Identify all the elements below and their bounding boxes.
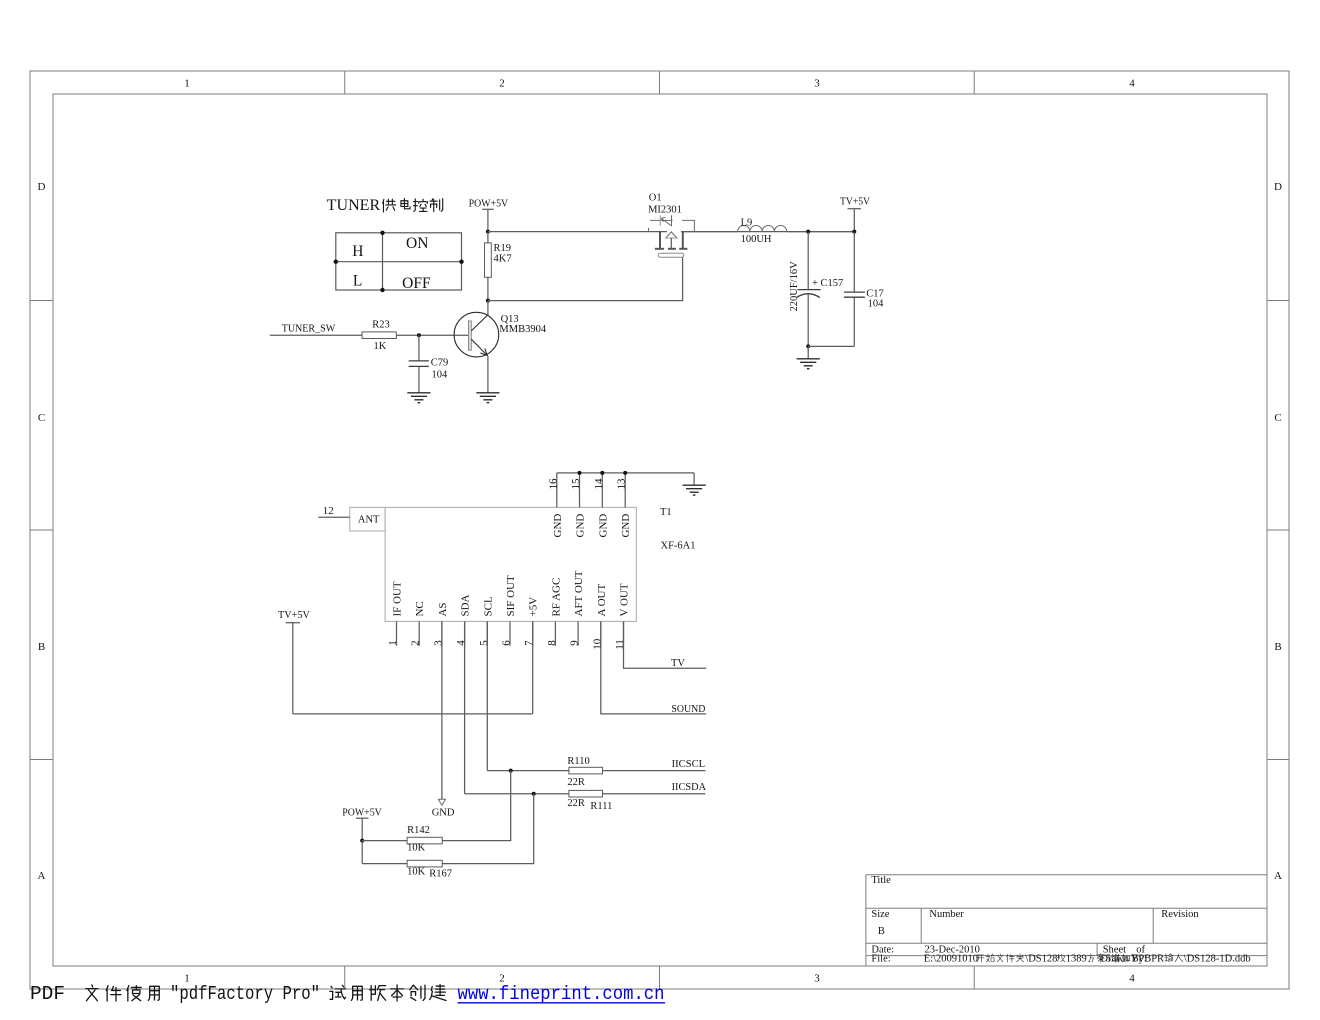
svg-text:4: 4 [1129, 973, 1135, 985]
svg-text:2: 2 [499, 78, 505, 90]
svg-text:13: 13 [616, 478, 628, 490]
wire GND bus above T1 [557, 472, 694, 474]
svg-text:Title: Title [871, 875, 891, 886]
pin 9 AFT OUT [577, 621, 579, 645]
svg-text:1K: 1K [374, 341, 387, 352]
svg-text:T1: T1 [660, 507, 672, 518]
node C157 bottom junction [806, 344, 810, 348]
ground below Q13 [476, 393, 499, 403]
pin 14 GND [601, 473, 603, 508]
svg-text:C: C [1274, 412, 1281, 424]
svg-text:D: D [38, 181, 46, 193]
svg-text:9: 9 [569, 640, 581, 646]
svg-text:TV+5V: TV+5V [840, 196, 870, 207]
svg-text:MI2301: MI2301 [648, 205, 682, 216]
svg-text:4: 4 [455, 640, 467, 646]
svg-text:+ C157: + C157 [812, 278, 843, 289]
wire C157 to C17 bottom [808, 345, 854, 347]
svg-text:E:\20091010: E:\20091010 [924, 954, 978, 965]
svg-text:IICSDA: IICSDA [672, 782, 707, 793]
pin 13 GND [624, 473, 626, 508]
pin 8 RF AGC [554, 621, 556, 645]
node pin14 junction [600, 471, 604, 475]
wire R110 to IICSCL [603, 770, 706, 772]
wire SCL row [487, 770, 569, 772]
svg-text:B: B [878, 926, 885, 937]
node TV+5V junction [852, 230, 856, 234]
node SDA R167 junction [532, 792, 536, 796]
svg-text:RF AGC: RF AGC [550, 578, 562, 617]
wire SDA row [465, 793, 569, 795]
svg-text:GND: GND [552, 514, 564, 538]
svg-text:A: A [38, 870, 46, 882]
svg-text:220UF/16V: 220UF/16V [789, 261, 800, 312]
svg-text:3: 3 [432, 640, 444, 646]
svg-text:+5V: +5V [528, 597, 540, 617]
wire pin7 +5V down [532, 621, 534, 714]
svg-text:5: 5 [478, 640, 490, 646]
capacitor C79 104 [418, 335, 420, 361]
wire rail POW+5V to O1 source [488, 231, 667, 233]
wire R23 to Q13 base [396, 334, 468, 336]
svg-text:10: 10 [591, 638, 603, 650]
svg-text:4K7: 4K7 [494, 254, 512, 265]
node C79 junction [417, 333, 421, 337]
svg-text:R19: R19 [494, 243, 512, 254]
svg-text:A: A [1274, 870, 1282, 882]
ground below C157 [807, 346, 809, 358]
svg-text:SDA: SDA [460, 594, 472, 616]
pin 7 +5V [532, 621, 534, 645]
svg-text:3: 3 [814, 78, 820, 90]
svg-text:14: 14 [593, 478, 605, 490]
svg-text:SOUND: SOUND [671, 704, 705, 715]
svg-text:V OUT: V OUT [619, 583, 631, 616]
transistor O1 MI2301 P-MOSFET [648, 193, 694, 258]
wire pin11 V OUT to TV [624, 621, 707, 668]
node pin13 junction [623, 471, 627, 475]
resistor R111 22R [569, 790, 603, 797]
pin 3 AS [441, 621, 443, 645]
pin 6 SIF OUT [509, 621, 511, 645]
svg-text:File:: File: [871, 954, 890, 965]
wire TUNER_SW input [270, 334, 362, 336]
pin 10 A OUT [600, 621, 602, 645]
resistor R142 10K [362, 840, 407, 842]
svg-text:TUNER_SW: TUNER_SW [282, 324, 336, 335]
node R19 bottom junction [486, 299, 490, 303]
node POW+5V rail junction [486, 230, 490, 234]
svg-text:11: 11 [614, 639, 626, 650]
wire TV+5V to pin7 [293, 713, 533, 715]
svg-text:1: 1 [387, 640, 399, 646]
svg-text:MMB3904: MMB3904 [499, 324, 546, 335]
node POW+5V bottom junction [360, 839, 364, 843]
pin 2 NC [418, 621, 420, 645]
svg-text:3: 3 [814, 973, 820, 985]
wire rail O1 drain to TV+5V [681, 231, 854, 233]
svg-text:100UH: 100UH [741, 234, 772, 245]
ground for T1 GND pins [693, 473, 695, 485]
svg-text:16: 16 [547, 478, 559, 490]
svg-text:O1: O1 [649, 193, 662, 204]
power port GND arrow [438, 799, 445, 805]
pin 12 ANT [318, 516, 350, 518]
tuner module T1 XF-6A1 [385, 507, 636, 621]
wire R142 to SCL [442, 771, 511, 841]
svg-text:22R: 22R [567, 777, 585, 788]
svg-text:Revision: Revision [1161, 909, 1199, 920]
svg-text:R111: R111 [590, 801, 612, 812]
svg-text:IICSCL: IICSCL [672, 759, 706, 770]
svg-text:GND: GND [575, 514, 587, 538]
svg-text:7: 7 [523, 640, 535, 646]
svg-text:TUNER: TUNER [327, 197, 381, 214]
svg-text:6: 6 [501, 640, 513, 646]
svg-text:R142: R142 [407, 825, 430, 836]
svg-text:Size: Size [871, 909, 889, 920]
pin 4 SDA [464, 621, 466, 645]
svg-text:104: 104 [868, 298, 885, 309]
svg-text:10K: 10K [407, 843, 426, 854]
resistor R110 22R [569, 767, 603, 774]
pin 5 SCL [486, 621, 488, 645]
ground below C79 [407, 393, 430, 403]
wire pin4 SDA down [464, 621, 466, 793]
svg-text:GND: GND [432, 807, 455, 818]
svg-text:\DS128-1D.ddb: \DS128-1D.ddb [1184, 954, 1251, 965]
svg-text:4: 4 [1129, 78, 1135, 90]
pin 11 V OUT [623, 621, 625, 645]
inductor L9 100UH [681, 231, 738, 233]
pin 16 GND [556, 473, 558, 508]
svg-text:POW+5V: POW+5V [469, 199, 509, 210]
resistor R19 [487, 232, 489, 243]
svg-text:PDF: PDF [30, 983, 65, 1005]
capacitor C17 104 [853, 232, 855, 293]
transistor Q13 MMB3904 [454, 301, 499, 393]
svg-text:104: 104 [432, 369, 449, 380]
svg-text:B: B [1274, 641, 1281, 653]
pin 1 IF OUT [396, 621, 398, 645]
svg-text:IF OUT: IF OUT [392, 581, 404, 616]
svg-text:OFF: OFF [402, 275, 431, 292]
svg-text:ANT: ANT [358, 515, 380, 526]
svg-text:NC: NC [414, 601, 426, 616]
svg-text:1: 1 [184, 78, 190, 90]
wire pin10 A OUT down [601, 621, 706, 714]
svg-text:ON: ON [406, 235, 428, 252]
svg-text:22R: 22R [567, 798, 585, 809]
svg-text:AFT OUT: AFT OUT [573, 570, 585, 616]
svg-text:R110: R110 [567, 756, 589, 767]
svg-text:Number: Number [929, 909, 964, 920]
truth table H/L ON/OFF [336, 233, 462, 290]
resistor R23 1K [362, 332, 396, 339]
svg-text:GND: GND [620, 514, 632, 538]
svg-text:H: H [352, 243, 363, 260]
svg-text:C79: C79 [431, 357, 449, 368]
svg-text:1389: 1389 [1066, 954, 1087, 965]
resistor R167 10K [361, 841, 363, 864]
node table corners [380, 231, 384, 235]
svg-text:SIF OUT: SIF OUT [505, 575, 517, 617]
node SCL R142 junction [509, 769, 513, 773]
wire R167 to SDA [442, 794, 534, 864]
wire gate line to O1 [488, 257, 683, 300]
svg-text:"pdfFactory Pro": "pdfFactory Pro" [170, 983, 320, 1005]
wire R111 to IICSDA [603, 793, 706, 795]
svg-text:15: 15 [570, 478, 582, 490]
svg-text:R23: R23 [372, 319, 390, 330]
svg-text:GND: GND [597, 514, 609, 538]
svg-text:SCL: SCL [482, 596, 494, 616]
svg-text:C: C [38, 412, 45, 424]
svg-text:TV+5V: TV+5V [278, 610, 310, 621]
svg-text:D: D [1274, 181, 1282, 193]
svg-text:10K: 10K [407, 867, 426, 878]
svg-text:B: B [38, 641, 45, 653]
svg-text:\DS128: \DS128 [1025, 954, 1057, 965]
node C157 top [806, 230, 810, 234]
svg-text:TV: TV [671, 658, 685, 669]
svg-text:AS: AS [437, 602, 449, 616]
svg-text:A OUT: A OUT [596, 584, 608, 617]
svg-text:Drawn By:: Drawn By: [1100, 954, 1146, 965]
svg-text:L9: L9 [741, 217, 753, 228]
svg-text:R167: R167 [429, 868, 452, 879]
svg-text:2: 2 [410, 640, 422, 646]
node pin15 junction [578, 471, 582, 475]
svg-text:12: 12 [323, 505, 334, 517]
svg-text:L: L [353, 272, 362, 289]
ANT sub-box [350, 507, 385, 531]
wire pin3 AS to GND arrow [441, 621, 443, 799]
svg-text:POW+5V: POW+5V [342, 807, 382, 818]
title block [866, 875, 1267, 966]
svg-text:XF-6A1: XF-6A1 [661, 541, 696, 552]
wire pin5 SCL down [486, 621, 488, 770]
pin 15 GND [579, 473, 581, 508]
svg-text:8: 8 [546, 640, 558, 646]
svg-text:www.fineprint.com.cn: www.fineprint.com.cn [458, 983, 665, 1005]
